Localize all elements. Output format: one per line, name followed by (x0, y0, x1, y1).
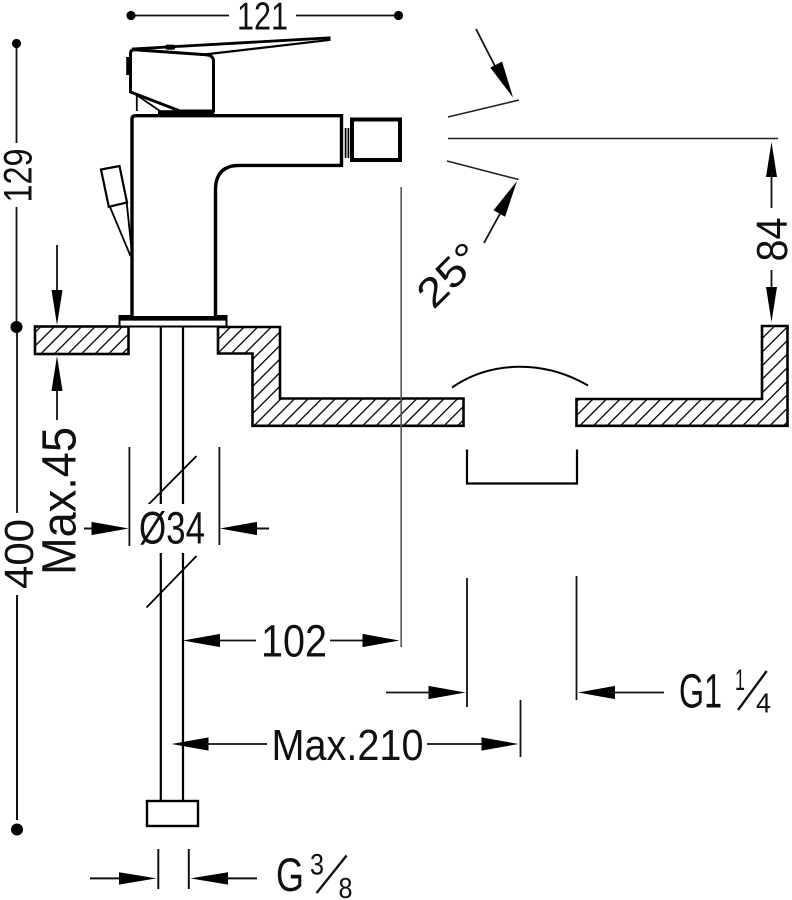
handle gap wedge diagonal (136, 95, 160, 112)
dim O34 text background mask (135, 504, 210, 553)
drain pull rod needle right line (127, 204, 132, 250)
basin drain hump arc (452, 367, 588, 388)
spout joint line left (345, 128, 347, 158)
handle base body (131, 50, 214, 111)
dim G3/8 left extension line (157, 849, 159, 889)
svg-text:121: 121 (237, 0, 288, 39)
dim O34 right arrowhead (220, 522, 257, 535)
dim Max.210 right arrowhead (482, 737, 519, 750)
dim G1-1/4 right arrowhead (578, 686, 615, 699)
dim G1-1/4 left extension line (466, 578, 468, 707)
dim O34 left extension line (128, 447, 130, 546)
dim O34 left arrowhead (92, 522, 129, 535)
dim G1-1/4 right extension line (576, 576, 578, 700)
spout joint line right (347, 128, 349, 158)
supply pipe left line (160, 327, 162, 801)
dim G1-1/4 fraction slash (738, 671, 767, 710)
drain pull rod needle left line (110, 207, 131, 256)
pipe break mark lower (147, 556, 197, 608)
supply pipe right line (182, 327, 184, 801)
dim 129 line upper segment (16, 47, 18, 143)
supply hose end nut G3/8 (147, 801, 198, 826)
jet upper pointer line (476, 29, 499, 74)
water jet axis line (448, 138, 778, 140)
svg-text:1: 1 (735, 664, 745, 697)
dim G3/8 right arrowhead (191, 872, 229, 884)
handle gap wedge vertical (136, 95, 138, 111)
aerator nozzle rectangle (352, 120, 400, 161)
dim 121 right dot (394, 11, 403, 20)
jet spread lower line (447, 161, 519, 180)
dim G3/8 fraction slash (317, 856, 347, 894)
dim Max.45 top arrow line (56, 245, 58, 300)
svg-text:8: 8 (339, 873, 353, 900)
dim 102 left line (214, 640, 256, 642)
lever blade bottom line (200, 40, 331, 55)
dim Max.45 bottom arrowhead (52, 356, 63, 391)
dim 129/400 shared dot (11, 321, 23, 333)
svg-text:Max.45: Max.45 (34, 427, 87, 575)
dim 102 left arrowhead (183, 634, 220, 647)
svg-text:G: G (276, 848, 304, 900)
svg-text:Max.210: Max.210 (272, 721, 424, 770)
svg-text:3: 3 (310, 849, 324, 882)
dim O34 right extension line (218, 447, 220, 545)
jet spread upper line (448, 100, 519, 117)
dim Max.210 left arrowhead (172, 737, 209, 750)
drain pull rod knob (tilted rectangle) (101, 166, 127, 207)
dim Max.210 left line (203, 743, 267, 745)
dim G3/8 left arrowhead (119, 872, 157, 884)
dim G3/8 left arrow line (90, 877, 125, 879)
drain tailpiece U bracket (467, 450, 577, 484)
dim G1-1/4 left arrow line (386, 692, 436, 694)
dim 84 lower line (771, 270, 773, 290)
handle contact strip (thick) (158, 110, 214, 115)
dim G1-1/4 right arrow line (608, 692, 664, 694)
svg-text:G1: G1 (679, 666, 722, 719)
dim 121 line right segment (296, 15, 399, 17)
angle 25 pointer line (484, 210, 502, 243)
faucet body outline (132, 116, 342, 316)
dim Max.45 top arrowhead (52, 290, 63, 325)
dim 129 top dot (12, 39, 21, 48)
countertop middle step section (hatched Z piece) (218, 327, 464, 426)
faucet base plate thick top edge (119, 316, 228, 320)
dim 400 bottom dot (11, 824, 23, 836)
dim 84 upper line (771, 172, 773, 208)
dim 400 line lower segment (16, 595, 18, 820)
dim G3/8 right extension line (188, 849, 190, 889)
dim 121 line left segment (131, 15, 229, 17)
dim 84 top arrowhead (766, 142, 777, 177)
dim O34 left arrow tail (84, 528, 98, 530)
dim 102 right arrowhead (363, 634, 400, 647)
dim O34 right arrow tail (253, 528, 269, 530)
dim G1-1/4 left arrowhead (429, 686, 466, 699)
angle 25 pointer arrowhead (494, 181, 518, 217)
pipe break mark upper (147, 456, 197, 507)
dim 121 left dot (126, 11, 135, 20)
jet upper pointer arrowhead (490, 62, 513, 98)
lever blade kink bump (166, 45, 176, 50)
countertop right L section (hatched) (577, 326, 788, 426)
svg-text:102: 102 (261, 616, 327, 667)
dim Max.210 right line (427, 743, 487, 745)
handle left side lug (126, 57, 130, 75)
countertop left section (hatched) (35, 327, 129, 355)
dim Max.210 end tick (520, 700, 522, 757)
svg-text:4: 4 (756, 688, 771, 719)
dim Max.45 bottom arrow line (56, 380, 58, 420)
dim 84 bottom arrowhead (766, 287, 777, 322)
svg-text:84: 84 (748, 218, 792, 262)
dim 400 line upper segment (16, 332, 18, 513)
svg-text:Ø34: Ø34 (139, 503, 205, 554)
faucet base plate (120, 316, 227, 327)
lever blade top line (132, 38, 331, 49)
svg-text:129: 129 (0, 149, 41, 203)
dim G3/8 right arrow line (224, 877, 257, 879)
dim 102 right line (330, 640, 368, 642)
dim 129 line lower segment (16, 207, 18, 322)
dim 102 extension line (long vertical) (400, 187, 402, 647)
